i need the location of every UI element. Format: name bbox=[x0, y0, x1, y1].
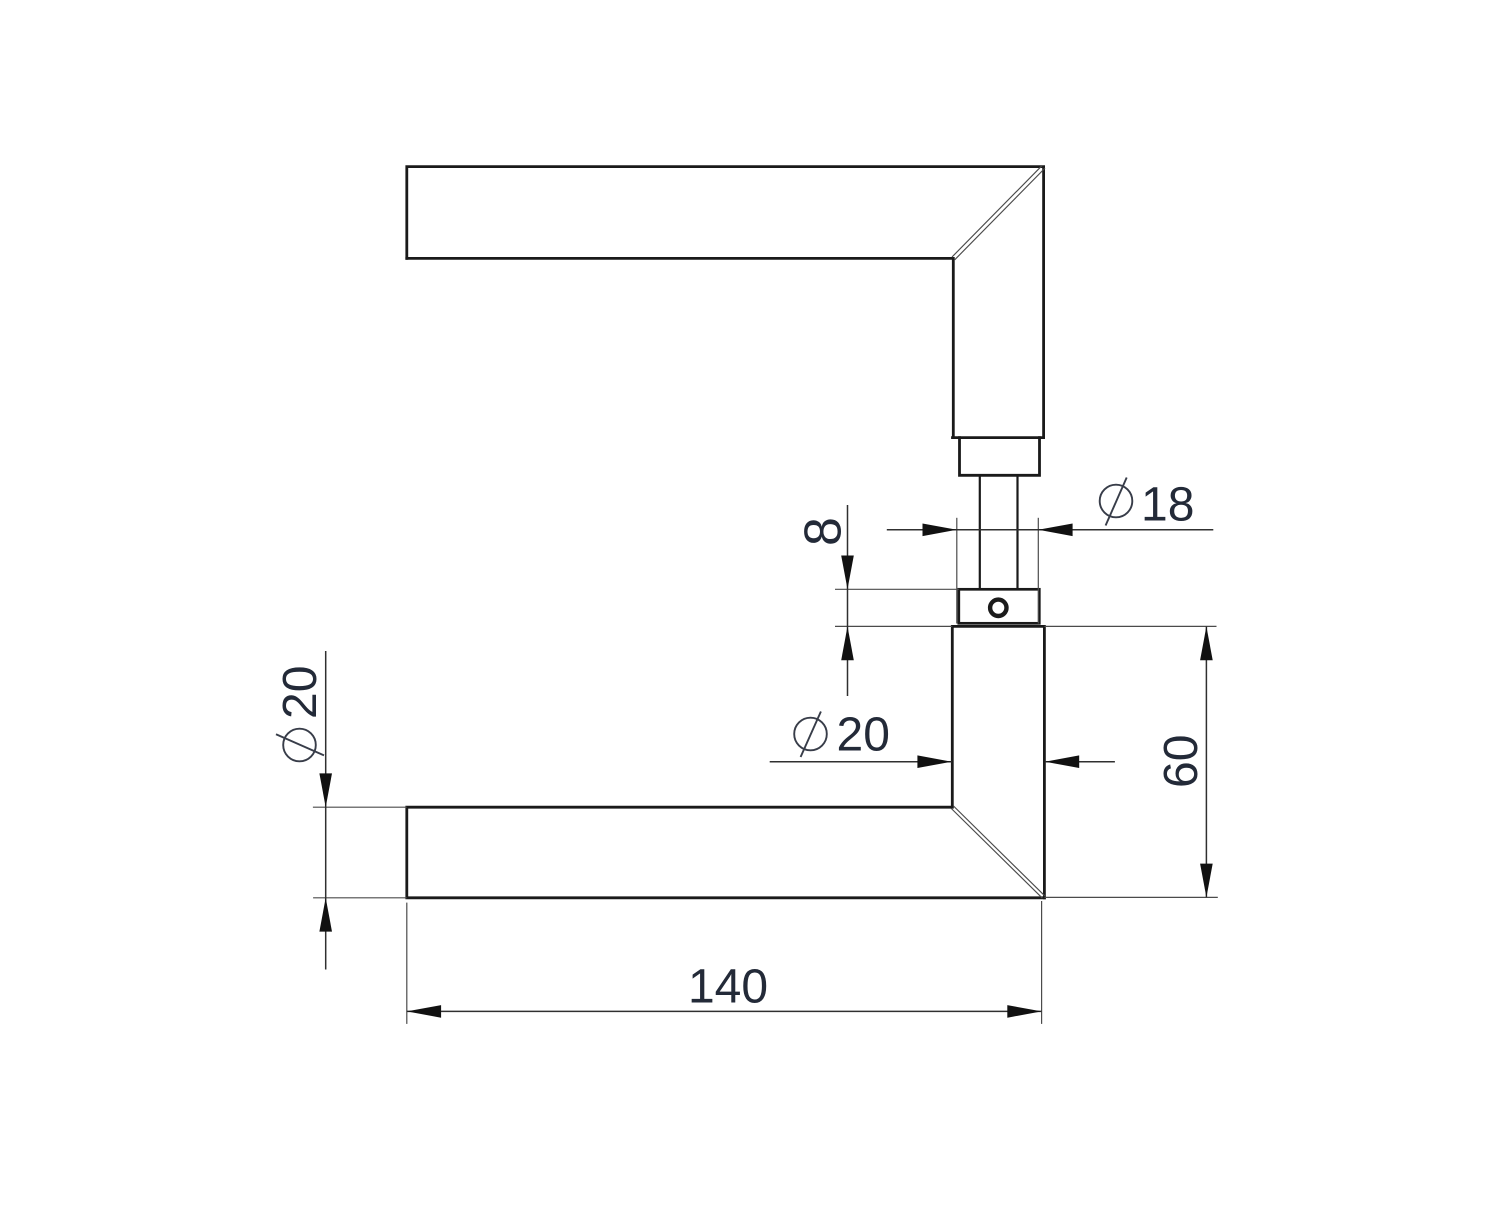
svg-text:20: 20 bbox=[837, 709, 890, 762]
svg-text:18: 18 bbox=[1141, 479, 1194, 532]
svg-text:60: 60 bbox=[1155, 735, 1208, 788]
svg-text:20: 20 bbox=[274, 666, 327, 719]
svg-text:140: 140 bbox=[688, 961, 768, 1014]
svg-text:8: 8 bbox=[795, 517, 853, 546]
